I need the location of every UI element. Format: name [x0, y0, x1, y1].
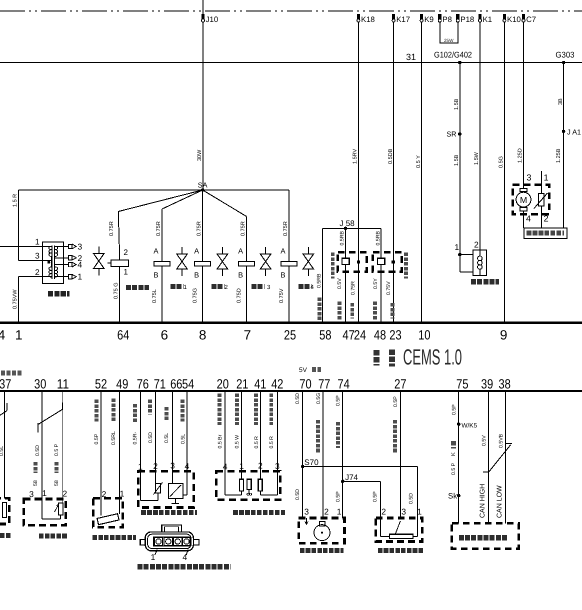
terminal C7 [522, 14, 525, 20]
svg-text:3: 3 [304, 507, 309, 517]
knock sensor 2 box [373, 252, 402, 272]
svg-text:76: 76 [137, 377, 149, 392]
connector cavity 2 [164, 538, 172, 545]
svg-text:0.5R-: 0.5R- [133, 432, 139, 445]
svg-text:CAN LOW: CAN LOW [496, 485, 503, 518]
knock sensor inner wire [41, 499, 43, 519]
svg-text:0.5DB: 0.5DB [388, 148, 394, 164]
wire pin30 down [41, 391, 43, 499]
svg-text:0.5D: 0.5D [295, 489, 301, 500]
svg-text:1: 1 [35, 238, 40, 247]
svg-text:0.75R: 0.75R [109, 221, 115, 236]
svg-text:0.5RB: 0.5RB [375, 231, 381, 246]
svg-text:2: 2 [153, 461, 158, 471]
ignition coil label [48, 291, 70, 297]
splice W/K5 [457, 423, 460, 426]
wire pin21 down [241, 391, 243, 471]
svg-text:1.5RV: 1.5RV [353, 148, 359, 164]
svg-text:0.5P: 0.5P [336, 395, 342, 406]
svg-text:0.75G: 0.75G [192, 288, 198, 303]
wire K10 to pin9 [503, 22, 505, 322]
node SA [201, 188, 204, 191]
terminal J10 [201, 14, 204, 20]
terminal K18 [357, 14, 360, 20]
svg-text:1.5W: 1.5W [474, 151, 480, 165]
svg-text:0.5P: 0.5P [336, 491, 342, 502]
wire function label pin24 [350, 303, 354, 319]
title CJK char 2 [389, 350, 395, 367]
injector 1 wire+coil [162, 190, 203, 209]
svg-text:1: 1 [239, 461, 244, 471]
junction clutch pin1 [458, 253, 461, 256]
svg-text:0.5 Br: 0.5 Br [217, 434, 223, 448]
MAP pressure cell vent [174, 499, 176, 504]
svg-text:74: 74 [338, 377, 351, 392]
svg-text:0.5D: 0.5D [35, 445, 41, 456]
svg-text:77: 77 [318, 377, 330, 392]
svg-text:1.5 R: 1.5 R [13, 194, 19, 207]
svg-text:4: 4 [78, 260, 83, 270]
svg-text:1: 1 [455, 242, 460, 252]
fuel sender pin 2 wire [540, 211, 542, 228]
svg-text:0.75D: 0.75D [236, 288, 242, 303]
svg-text:2: 2 [124, 248, 129, 257]
svg-text:11: 11 [57, 377, 69, 392]
svg-text:2: 2 [324, 507, 329, 517]
svg-text:2: 2 [544, 214, 549, 224]
knock sensor 1 piezo [342, 258, 349, 264]
coil core [51, 246, 53, 280]
cut-off sensor box at left edge [0, 498, 9, 524]
junction G102/G402 [458, 61, 461, 64]
wire harness dash-dot rail [0, 10, 582, 12]
wire K18 to pin24 [357, 22, 359, 322]
wire pin20 down [224, 391, 226, 471]
splice SK [457, 494, 460, 497]
svg-text:A: A [238, 247, 243, 256]
svg-text:A: A [154, 247, 159, 256]
knock sensor 1 box [338, 252, 367, 272]
junction J58 [344, 227, 347, 230]
svg-text:Sk: Sk [448, 492, 457, 501]
svg-text:A: A [194, 247, 199, 256]
svg-text:0.5P: 0.5P [393, 396, 399, 407]
wire G303 to fuel sender [563, 63, 565, 229]
clutch coil winding [478, 256, 483, 261]
wire function label pin47 [337, 302, 341, 320]
svg-text:0.5RB: 0.5RB [317, 273, 323, 288]
wire pin54 down [186, 391, 188, 471]
S70 bus wire [303, 466, 418, 468]
fuel level rheostat [539, 193, 544, 206]
svg-text:37: 37 [0, 377, 11, 392]
cut-off sensor element [3, 503, 7, 518]
svg-text:0.5P: 0.5P [94, 433, 100, 444]
label above row2 left [1, 371, 22, 376]
svg-text:SR: SR [447, 130, 457, 139]
svg-text:CAN HIGH: CAN HIGH [479, 484, 486, 518]
terminal K1 [478, 14, 481, 20]
splice S70 [301, 465, 304, 468]
injector 2 wire+coil [202, 190, 204, 262]
svg-text:2: 2 [474, 240, 479, 250]
knock sensor element arrow [55, 504, 59, 512]
wire J10 to SA [202, 0, 204, 14]
MAP pressure cell diagonal [170, 485, 181, 497]
svg-text:0.75R: 0.75R [240, 221, 246, 236]
cut-off sensor label [0, 533, 11, 538]
svg-text:0.5RL: 0.5RL [111, 431, 117, 445]
svg-text:4: 4 [185, 461, 190, 471]
svg-text:58: 58 [319, 328, 331, 343]
svg-text:B: B [154, 271, 159, 280]
canister solenoid coil box [111, 260, 129, 267]
splice J A1 [562, 130, 565, 133]
svg-text:0.75V: 0.75V [386, 281, 392, 295]
wire function label pin23 [390, 303, 394, 319]
terminal P18 [456, 14, 459, 20]
svg-text:K17: K17 [396, 15, 410, 24]
svg-text:25W: 25W [444, 38, 454, 43]
svg-text:0.5D: 0.5D [148, 432, 154, 443]
fuel sender pin 4 wire [523, 211, 525, 228]
svg-text:27: 27 [394, 377, 406, 392]
wire J58 to pin58 [321, 228, 323, 321]
wire pin75 K-line down [458, 391, 460, 523]
svg-text:1: 1 [544, 173, 549, 183]
clutch coil loop wire [460, 254, 473, 256]
terminal P8 [438, 14, 441, 20]
knock sensor 2 name [404, 253, 408, 279]
svg-text:4: 4 [223, 462, 228, 472]
svg-text:1.5B: 1.5B [454, 154, 460, 166]
wire pin38 CAN low down [505, 391, 507, 523]
svg-text:K9: K9 [424, 15, 434, 24]
wire pin71 down [154, 391, 156, 471]
svg-text:0.75 G: 0.75 G [114, 282, 120, 299]
svg-text:66: 66 [170, 377, 182, 392]
ECU connector boundary upper [0, 321, 582, 324]
wire to coil pin3 [19, 259, 43, 261]
connector caption [138, 564, 231, 569]
MAP pressure cell [169, 483, 183, 498]
fuel level sender box [513, 185, 550, 214]
svg-text:0.5 R: 0.5 R [254, 436, 260, 449]
svg-text:1: 1 [124, 268, 129, 277]
svg-text:4: 4 [0, 328, 6, 343]
connector face outer shell [145, 532, 193, 551]
svg-text:3: 3 [401, 507, 406, 517]
wire K9 to pin10 [421, 22, 423, 322]
connector cavity 3 [174, 538, 182, 545]
wire pin66 down [172, 391, 174, 471]
svg-text:0.5L: 0.5L [0, 446, 5, 456]
IAC inner wire pin4 [224, 471, 226, 495]
camshaft sensor label [300, 548, 344, 553]
svg-text:2: 2 [381, 507, 386, 517]
wire function label pin48 [373, 302, 377, 320]
coil primary winding upper [49, 246, 51, 256]
svg-text:SA: SA [198, 181, 208, 190]
svg-text:3: 3 [170, 461, 175, 471]
compressor clutch label [471, 279, 499, 284]
svg-text:G102/G402: G102/G402 [434, 50, 472, 60]
svg-text:CEMS 1.0: CEMS 1.0 [403, 345, 462, 370]
svg-text:39: 39 [481, 377, 493, 392]
wire pin41 down [259, 391, 261, 471]
svg-text:7: 7 [244, 328, 252, 343]
svg-text:K10: K10 [507, 15, 522, 24]
svg-text:W/K5: W/K5 [462, 423, 478, 430]
wire SA bus top [19, 189, 290, 191]
terminal K17 [392, 14, 395, 20]
body network system box [452, 523, 519, 548]
wire function label pin58 [317, 298, 321, 321]
svg-text:8: 8 [199, 328, 207, 343]
spark output 4 [55, 264, 68, 266]
svg-text:38: 38 [499, 377, 511, 392]
svg-text:1: 1 [15, 328, 23, 343]
svg-text:B: B [238, 271, 243, 280]
svg-text:49: 49 [116, 377, 128, 392]
wire pin27 down to TPS [399, 391, 401, 518]
svg-text:2: 2 [35, 268, 40, 277]
shield wire knock1 [345, 228, 347, 258]
svg-text:3: 3 [275, 461, 280, 471]
cam position signal label pin77 col [322, 391, 324, 518]
svg-text:C7: C7 [526, 15, 536, 24]
splice SR [458, 132, 461, 135]
svg-text:K18: K18 [361, 15, 375, 24]
svg-text:1: 1 [42, 488, 47, 498]
knock sensor label [39, 533, 67, 538]
svg-text:0.5D: 0.5D [408, 493, 414, 504]
wire pin52 down [100, 391, 102, 498]
title CJK char 1 [374, 350, 380, 366]
MAP sensor box [138, 471, 194, 507]
compressor clutch coil box [473, 250, 487, 276]
svg-text:J74: J74 [345, 473, 358, 482]
splice J74 [341, 480, 344, 483]
wire K17 to pin23 [393, 22, 395, 322]
injector 3 wire+coil [203, 190, 247, 217]
svg-text:6: 6 [161, 328, 169, 343]
cam sensor pickup square [319, 522, 325, 526]
signal wire knock1 to pin47 [345, 265, 347, 272]
svg-text:0.5L: 0.5L [180, 434, 186, 444]
svg-text:0.5G: 0.5G [499, 156, 505, 168]
svg-text:1: 1 [417, 507, 422, 517]
IAC rotor [247, 479, 251, 489]
svg-text:4: 4 [182, 552, 187, 562]
wire pin49 down [119, 391, 121, 498]
MAP thermistor [156, 483, 161, 493]
fuel pump motor brush lower [520, 207, 527, 210]
wire pin39 CAN high down [488, 391, 490, 523]
svg-text:0.5P: 0.5P [372, 491, 378, 502]
canister valve symbol [98, 247, 100, 254]
MAP thermistor strike [154, 483, 163, 495]
svg-text:K1: K1 [483, 15, 493, 24]
terminal K10 [503, 14, 506, 20]
knock sensor 1 terminal [357, 260, 360, 263]
canister wire to pin64 [119, 267, 121, 322]
MAP inner wire pin4 [186, 471, 188, 495]
coil secondary winding lower [55, 267, 57, 277]
svg-text:47: 47 [343, 328, 355, 343]
throttle position sensor box [376, 518, 422, 542]
knock sensor 1 name [331, 253, 335, 279]
body network system label [459, 535, 508, 540]
injector 4 wire+coil [288, 190, 290, 262]
canister valve label [126, 285, 149, 290]
svg-text:0.5 Y: 0.5 Y [416, 155, 422, 168]
svg-text:0.75L: 0.75L [152, 289, 158, 303]
svg-text:41: 41 [254, 377, 266, 392]
fuel sender pin 1 stub [540, 171, 542, 185]
camshaft position sensor box [299, 518, 345, 543]
wire pin42 down [276, 391, 278, 471]
spark output 2 [55, 257, 68, 259]
svg-text:0.5L: 0.5L [164, 433, 170, 443]
svg-text:3: 3 [35, 252, 40, 261]
spark output 1 [55, 276, 68, 278]
wire K1 to relay pin2 [479, 22, 481, 250]
svg-text:0.75R: 0.75R [283, 221, 289, 236]
svg-text:1.25D: 1.25D [518, 148, 524, 163]
svg-text:20: 20 [217, 377, 229, 392]
svg-text:54: 54 [182, 377, 195, 392]
svg-text:M: M [520, 195, 527, 205]
svg-text:3: 3 [527, 173, 532, 183]
svg-text:25: 25 [284, 328, 296, 343]
connector pin 1 callout [155, 550, 158, 556]
connector cavity 1 [154, 538, 162, 545]
connector pin 4 callout [186, 550, 188, 556]
fuel pump motor [516, 192, 531, 207]
svg-text:3: 3 [29, 489, 34, 499]
fuel pump motor brush upper [520, 188, 527, 191]
connector face left tab [140, 540, 145, 545]
knock sensor 2 piezo [378, 258, 385, 264]
svg-text:1: 1 [151, 552, 156, 562]
svg-text:0.75V: 0.75V [279, 288, 285, 303]
spark output 3 [55, 245, 68, 247]
svg-text:0.5Y: 0.5Y [373, 278, 379, 289]
terminal K9 [420, 14, 423, 20]
svg-text:1: 1 [337, 507, 342, 517]
svg-text:1: 1 [78, 272, 83, 282]
svg-text:0.75R: 0.75R [196, 221, 202, 236]
wire 1.5R ignition supply [18, 190, 20, 260]
wire coil pin2 ground [19, 276, 43, 278]
IAC inner wire pin3 [276, 471, 278, 495]
svg-text:0.5V: 0.5V [482, 435, 488, 446]
coil internal connections [42, 245, 51, 247]
svg-text:75: 75 [456, 377, 468, 392]
connector cavity 4 [182, 538, 190, 545]
connector face top tab [162, 525, 182, 532]
wire pin37 down [4, 391, 6, 498]
svg-text:0.5RB: 0.5RB [340, 231, 346, 246]
IAC motor label [233, 510, 285, 515]
svg-text:0.5D: 0.5D [295, 393, 301, 404]
svg-text:24: 24 [354, 328, 367, 343]
svg-text:2: 2 [258, 461, 263, 471]
svg-text:0.5 W: 0.5 W [235, 435, 241, 449]
cam sensor rotor circle [314, 525, 330, 541]
svg-text:1.5B: 1.5B [454, 98, 460, 110]
wire pin70 down [302, 391, 304, 518]
canister valve wire upper [118, 212, 119, 253]
svg-text:B: B [281, 271, 286, 280]
connector face right tab [193, 540, 199, 545]
wire battery feed to coil pin1 [0, 245, 42, 247]
wire pin76 down [139, 391, 141, 471]
cam sensor inner arrow [305, 518, 308, 525]
wire P18/SR to relay pin1 [459, 63, 461, 255]
svg-text:S70: S70 [304, 458, 319, 467]
signal wire knock2 to pin48 [380, 265, 382, 322]
svg-text:0.5VB: 0.5VB [499, 433, 505, 448]
svg-text:58: 58 [54, 480, 60, 486]
twist symbol pins30-11 [62, 402, 64, 410]
fuel sender label box [524, 228, 567, 238]
svg-text:J 58: J 58 [340, 219, 356, 228]
svg-text:4: 4 [526, 214, 531, 224]
svg-text:5V: 5V [299, 367, 308, 374]
knock sensor 2 terminal [392, 260, 395, 263]
ignition coil T1 box [42, 242, 63, 283]
svg-text:0.5 R: 0.5 R [269, 436, 275, 449]
svg-text:64: 64 [117, 328, 130, 343]
coil secondary winding upper [55, 246, 57, 256]
svg-text:30W: 30W [197, 149, 203, 161]
IAC winding B [258, 479, 262, 491]
svg-text:0.75R: 0.75R [156, 221, 162, 236]
svg-text:58: 58 [33, 480, 39, 486]
svg-text:G303: G303 [556, 50, 575, 60]
svg-text:0.5 P: 0.5 P [54, 443, 60, 456]
svg-text:0.5 P: 0.5 P [451, 462, 457, 475]
wire pin74 down [342, 391, 344, 518]
coolant temp sensor label [93, 535, 137, 540]
svg-text:P8: P8 [442, 15, 452, 24]
TPS label [378, 548, 424, 553]
coolant temp sensor box [93, 498, 123, 527]
svg-text:71: 71 [154, 377, 166, 392]
ECU connector boundary lower [0, 390, 582, 392]
svg-text:31: 31 [406, 52, 416, 62]
coolant sensor thermistor [97, 514, 119, 525]
svg-text:J10: J10 [206, 15, 219, 24]
svg-text:0.5P: 0.5P [452, 404, 458, 415]
svg-text:0.5G: 0.5G [316, 393, 322, 404]
svg-text:30: 30 [34, 377, 46, 392]
IAC winding A [240, 479, 244, 491]
svg-text:2: 2 [62, 489, 67, 499]
IAC motor box [216, 471, 280, 500]
junction G303 [562, 61, 565, 64]
J74 wire to TPS pin2 [343, 480, 381, 482]
svg-text:48: 48 [374, 328, 386, 343]
ground rail 31 G102/G402 [0, 62, 582, 64]
knock sensor element [58, 503, 63, 515]
svg-text:0.75R: 0.75R [350, 281, 356, 295]
svg-text:0.5V: 0.5V [337, 278, 343, 289]
connector pin row bar [153, 537, 190, 546]
CAN twist symbol [506, 442, 512, 444]
